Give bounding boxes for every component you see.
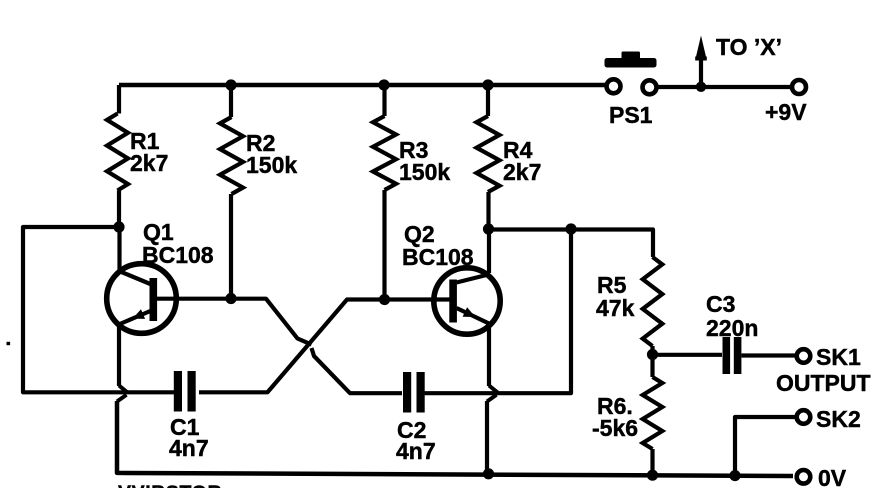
resistor R1 lead top <box>117 85 121 114</box>
svg-text:220n: 220n <box>706 315 758 341</box>
wire bottom 0V rail <box>117 401 793 476</box>
wire R4 node to R5 <box>489 230 654 258</box>
node rail/R3 junction <box>378 79 389 90</box>
wire rail right of PB1 to +9V <box>659 85 793 89</box>
transistor Q2 base bar <box>449 280 457 323</box>
svg-text:C3: C3 <box>706 291 735 317</box>
transistor Q2 emitter stroke <box>457 308 491 324</box>
wire R4 junction to Q2 collector <box>487 229 491 273</box>
wire R1 junction to Q1 collector <box>117 227 121 271</box>
wire Q1 base to X diagonal (upper) <box>231 299 312 345</box>
transistor Q1 circle <box>107 264 177 334</box>
pushbutton PS1 contact right <box>643 80 657 94</box>
resistor R2 lead bottom <box>229 194 233 299</box>
wire top supply rail <box>119 83 605 87</box>
node rail/R2 junction <box>225 79 236 90</box>
resistor R1 2k7 <box>107 114 128 191</box>
resistor R5 47k <box>643 257 663 346</box>
resistor R3 lead bottom <box>382 190 386 300</box>
node Q2 emitter / 0V rail junction <box>483 468 494 479</box>
resistor R6 lead top <box>650 355 654 378</box>
capacitor C3 plate left <box>723 337 731 374</box>
capacitor C1 plate left <box>174 371 182 412</box>
terminal SK2 <box>797 410 811 424</box>
node Q2 base junction <box>379 294 390 305</box>
svg-text:2k7: 2k7 <box>503 159 541 185</box>
node rail/R4 junction <box>482 79 493 90</box>
node collector rail junction <box>565 223 576 234</box>
capacitor C1 plate right <box>188 371 196 412</box>
node R1/Q1 collector junction <box>113 221 124 232</box>
transistor Q1 base bar <box>150 278 158 321</box>
transistor Q2 base lead <box>384 297 450 301</box>
svg-text:0V: 0V <box>818 465 847 488</box>
resistor R3 150k <box>373 116 396 190</box>
wire X diagonal to C2 (lower) <box>312 348 403 393</box>
svg-text:47k: 47k <box>596 295 635 321</box>
node R6/0V rail junction <box>647 470 658 481</box>
svg-text:TO ’X’: TO ’X’ <box>716 34 782 60</box>
svg-text:-5k6: -5k6 <box>592 415 638 441</box>
resistor R3 lead top <box>382 85 386 116</box>
svg-text:PS1: PS1 <box>609 102 653 128</box>
wire Q1 emitter down (upper) <box>117 325 121 386</box>
wire hop Q1 emitter over loop wire <box>117 386 128 402</box>
transistor Q1 base lead <box>157 297 231 301</box>
transistor Q1 emitter stroke <box>118 311 152 326</box>
wire Q2 emitter down (upper) <box>487 324 491 386</box>
svg-text:+9V: +9V <box>765 99 807 125</box>
resistor R6 5k6 <box>643 377 663 449</box>
resistor R4 lead top <box>486 85 490 116</box>
node Q1 base junction <box>225 293 236 304</box>
node R5/R6 junction <box>647 349 658 360</box>
terminal 0V <box>797 470 811 484</box>
resistor R2 150k <box>220 117 243 194</box>
node R4/Q2 collector junction <box>483 223 494 234</box>
capacitor C2 plate left <box>403 372 411 413</box>
wire hop Q2 emitter over C2 wire <box>487 386 498 402</box>
wire left loop (Q1 collector to C1) <box>23 227 174 392</box>
TO-X arrow head <box>696 36 707 59</box>
wire SK2 to 0V rail <box>735 417 796 475</box>
svg-text:BC108: BC108 <box>142 242 214 268</box>
svg-text:SK1: SK1 <box>816 344 861 370</box>
svg-text:4n7: 4n7 <box>169 435 209 461</box>
transistor Q1 collector stroke <box>119 271 152 285</box>
wire Q2 base to C1 diagonal <box>199 300 384 393</box>
terminal SK1 <box>797 349 811 363</box>
svg-text:OUTPUT: OUTPUT <box>776 370 871 396</box>
resistor R2 lead top <box>229 85 233 117</box>
node rail / TO-X junction <box>696 82 706 92</box>
transistor Q2 collector stroke <box>457 275 489 283</box>
svg-text:4n7: 4n7 <box>396 438 436 464</box>
svg-text:SK2: SK2 <box>816 406 861 432</box>
transistor Q1 emitter arrow <box>133 309 146 319</box>
pushbutton PS1 contact left <box>607 79 621 93</box>
resistor R4 lead bottom <box>486 192 490 230</box>
resistor R4 2k7 <box>477 116 500 192</box>
svg-text:BC108: BC108 <box>402 244 474 270</box>
capacitor C3 plate right <box>734 337 742 374</box>
wire TO-X arrow stem <box>699 58 703 87</box>
speck left margin <box>7 342 11 345</box>
svg-text:VVIBSTOR: VVIBSTOR <box>118 482 222 488</box>
wire R5/R6 junction to C3 <box>653 353 723 357</box>
wire Q2 emitter down (lower) <box>485 401 489 473</box>
wire C3 to SK1 <box>742 353 797 357</box>
wire C2 to Q2 collector node <box>425 229 572 393</box>
resistor R6 lead bottom <box>650 449 654 475</box>
node SK2 branch / 0V rail junction <box>729 470 740 481</box>
svg-text:2k7: 2k7 <box>130 150 168 176</box>
capacitor C2 plate right <box>417 372 425 413</box>
transistor Q2 circle <box>434 268 500 334</box>
svg-text:150k: 150k <box>246 152 297 178</box>
resistor R5 lead bottom <box>650 346 654 355</box>
transistor Q2 emitter arrow <box>463 307 476 317</box>
svg-text:150k: 150k <box>399 159 450 185</box>
resistor R1 lead bottom <box>117 191 121 229</box>
pushbutton PS1 cap <box>605 58 657 68</box>
terminal +9V <box>792 80 806 94</box>
